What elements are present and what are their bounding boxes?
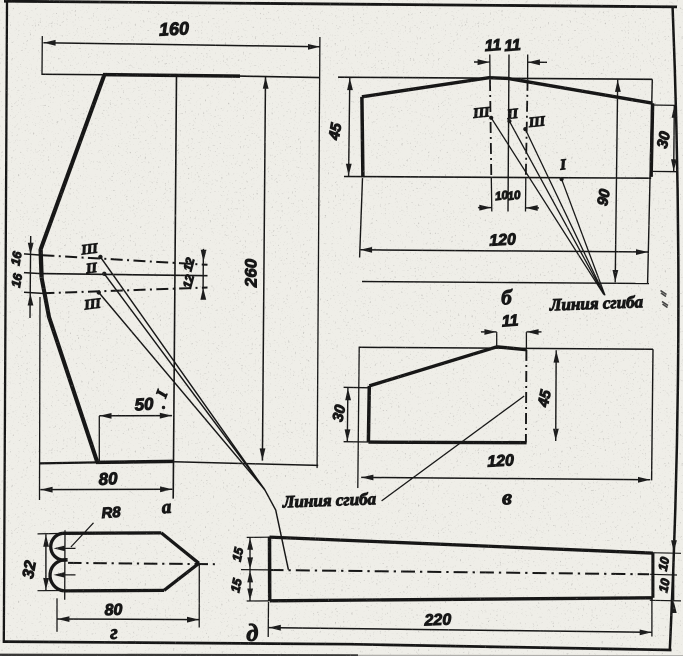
dimension 11 part v line right bbox=[526, 331, 541, 333]
dimension 260 line bbox=[262, 77, 265, 461]
part b fold line III right extension top bbox=[527, 55, 529, 80]
part g radius arrow upper bbox=[54, 546, 66, 552]
border frame left bbox=[4, 2, 7, 643]
dimension 10 right tick mid bbox=[650, 573, 677, 576]
part g center dash-dot line bbox=[68, 563, 215, 564]
part a fold point III lower bbox=[97, 290, 101, 294]
fold tick upper left bbox=[24, 254, 43, 255]
dimension 90 arrow down bbox=[613, 270, 619, 282]
part b fan line 3 bbox=[525, 129, 604, 295]
part a fold line III upper dash-dot bbox=[42, 255, 207, 265]
page bottom edge faint bbox=[358, 654, 683, 656]
dimension 12 arrow down bbox=[201, 250, 207, 262]
dimension 45 part b line bbox=[349, 78, 350, 176]
fold tick lower left bbox=[24, 292, 43, 293]
dimension 32 arrow up bbox=[43, 535, 49, 547]
dimension 50 arrow right bbox=[160, 413, 172, 419]
dimension 11 part v arrow left bbox=[526, 329, 538, 335]
dimension 11 part v line left bbox=[481, 331, 497, 333]
part a fold point II bbox=[102, 272, 106, 276]
border frame right bbox=[670, 7, 679, 649]
dimension 220 extension left bbox=[267, 602, 269, 638]
part v outline bottom edge bbox=[368, 440, 526, 444]
dimension 120 part b arrow right bbox=[636, 249, 648, 255]
dimension 10 right arrow up bbox=[671, 601, 677, 613]
dimension 15 arrow up mid bbox=[247, 570, 253, 582]
part b fold line II vertical bbox=[508, 55, 509, 212]
part d center tick left bbox=[241, 569, 269, 571]
dimension 30 part b tick bottom bbox=[651, 170, 677, 172]
dimension 15 15 line bbox=[249, 538, 251, 601]
dimension 32 tick bottom bbox=[38, 590, 64, 592]
part b fold line III left extension top bbox=[489, 55, 491, 81]
dimension 30 part v arrow up bbox=[345, 388, 351, 400]
part b top reference line bbox=[338, 77, 652, 79]
dimension 80 arrow left bbox=[40, 487, 52, 493]
part a fold line II solid bbox=[41, 274, 208, 276]
dimension 90 line bbox=[615, 80, 618, 283]
dimension 30 part b tick top bbox=[652, 104, 677, 106]
part v peak extension bbox=[496, 332, 498, 347]
part a bottom edge thick bbox=[96, 461, 174, 462]
dimension 160 arrow right bbox=[308, 44, 320, 50]
part v top reference line bbox=[359, 347, 653, 349]
dimension 90 arrow up bbox=[615, 80, 621, 92]
dimension 45 part v line bbox=[555, 350, 558, 441]
dimension 10 10 line left bbox=[478, 207, 492, 209]
dimension 16 16 line bbox=[29, 236, 32, 318]
dimension 10 arrow right bbox=[479, 205, 491, 211]
part a leader fan line 2 bbox=[104, 274, 264, 490]
part g radius line lower bbox=[56, 574, 76, 576]
part v left extension line bbox=[358, 347, 359, 488]
part g scallop arc lower bbox=[50, 560, 67, 591]
part d outline bottom edge bbox=[270, 598, 653, 601]
dimension 15 arrow down mid bbox=[247, 557, 253, 569]
dimension 220 arrow right bbox=[640, 630, 652, 636]
dimension 30 part v tick top bbox=[344, 386, 370, 389]
dimension 80 line bbox=[40, 488, 172, 490]
part d outline top edge bbox=[270, 537, 653, 553]
leader from fold label to part v bbox=[382, 396, 525, 501]
dimension 10 10 line right bbox=[526, 207, 540, 209]
dimension 50 extension bbox=[98, 416, 100, 462]
dimension 30 part v tick bottom bbox=[344, 441, 369, 443]
dimension 160 arrow left bbox=[43, 40, 55, 46]
part b right reference line bbox=[648, 79, 653, 283]
part b bottom reference line bbox=[344, 177, 651, 179]
part b fold line III left extension bottom bbox=[490, 178, 493, 212]
part v fold extension above bbox=[525, 332, 527, 350]
dimension 120 part v arrow left bbox=[361, 475, 373, 481]
part b fan line 1 bbox=[491, 118, 603, 294]
dimension 220 line bbox=[269, 628, 652, 633]
dimension 15 arrow down bottom bbox=[247, 589, 253, 601]
dimension 12 arrow up bbox=[200, 288, 206, 300]
dimension 11 11 line right bbox=[528, 61, 547, 63]
part b outline right edge bbox=[651, 103, 653, 177]
dimension 32 arrow down bbox=[43, 578, 49, 590]
part g scallop arc upper bbox=[51, 533, 68, 560]
dimension 160 right extension bbox=[317, 37, 320, 468]
part a leader fan line 3 bbox=[99, 293, 265, 490]
dimension 16 arrow down bbox=[28, 243, 34, 255]
dimension 120 part b line bbox=[360, 250, 648, 252]
border frame top bbox=[4, 1, 677, 7]
dimension 80 part g arrow left bbox=[57, 616, 69, 622]
dimension 80 part g line bbox=[57, 618, 199, 621]
part v right reference line bbox=[652, 349, 653, 480]
dimension 30 part b arrow up bbox=[672, 106, 678, 118]
part a top edge thin lead bbox=[42, 73, 104, 76]
part v outline top edge bbox=[369, 347, 526, 386]
dimension 160 line bbox=[43, 43, 320, 47]
dimension 10 right tick top bbox=[650, 552, 681, 555]
dimension 50 arrow left bbox=[99, 413, 111, 419]
margin mark 2 bbox=[662, 302, 668, 308]
part d center dash-dot line bbox=[270, 570, 650, 574]
part a bottom edge thin right bbox=[174, 462, 318, 466]
part b fold line III left dash-dot bbox=[490, 80, 491, 178]
part b fan line 2 bbox=[509, 121, 604, 294]
dimension 120 part v arrow right bbox=[638, 477, 650, 483]
dimension 11 11 line left bbox=[474, 61, 490, 63]
part d outline right edge bbox=[651, 553, 654, 598]
dimension 10 right arrow down bbox=[671, 540, 677, 552]
part g radius arrow lower bbox=[54, 572, 66, 578]
part v outline left edge bbox=[367, 386, 371, 442]
part b fold line III right dash-dot bbox=[526, 80, 528, 178]
part v fold dash-dot line bbox=[525, 350, 528, 443]
dimension 15 tick top bbox=[247, 536, 268, 538]
part g centers vertical line bbox=[64, 530, 66, 600]
dimension 32 tick top bbox=[38, 532, 64, 535]
fold tick middle left bbox=[24, 273, 41, 274]
dimension 16 arrow up bbox=[28, 293, 34, 305]
dimension 45 part v arrow down bbox=[553, 429, 559, 441]
part a fold line III lower dash-dot bbox=[42, 288, 207, 294]
dimension 220 arrow left bbox=[269, 625, 281, 631]
dimension 10 10 right line bbox=[673, 539, 675, 601]
part d outline left edge bbox=[268, 537, 272, 602]
part a outline lower diagonal bbox=[42, 278, 97, 461]
part a outline apex segment bbox=[41, 249, 42, 278]
dimension 11 arrow left bbox=[528, 59, 540, 65]
dimension 30 part v arrow down bbox=[345, 429, 351, 441]
part b fold point III left bbox=[489, 116, 493, 120]
part b fold line III right extension bottom bbox=[525, 178, 527, 212]
leader R8 bbox=[71, 523, 94, 547]
part g outline bottom edge bbox=[64, 589, 164, 593]
part a outline left diagonal bbox=[41, 74, 105, 249]
dimension 12 12 line bbox=[202, 249, 204, 299]
dimension 30 part v line bbox=[346, 388, 349, 442]
dimension 45 part v arrow up bbox=[554, 350, 560, 362]
part a fold point III upper bbox=[98, 255, 102, 259]
dimension 30 part b arrow down bbox=[671, 159, 677, 171]
dimension 11 arrow right bbox=[478, 59, 490, 65]
dimension 80 part g extension left bbox=[56, 598, 58, 632]
part a top edge thin right bbox=[239, 76, 320, 78]
part b outline top edge bbox=[362, 78, 653, 104]
dimension 260 arrow down bbox=[260, 448, 266, 460]
margin mark 1 bbox=[661, 291, 667, 297]
part b outline left edge bbox=[362, 97, 363, 178]
dimension 120 part v line bbox=[361, 477, 650, 479]
dimension 11 part v arrow right bbox=[484, 329, 496, 335]
part g outline upper diagonal bbox=[161, 533, 199, 563]
part g outline lower diagonal bbox=[164, 563, 199, 590]
dimension 120 part b arrow left bbox=[360, 247, 372, 253]
part b bottom extension line bbox=[362, 282, 649, 284]
dimension 50 line bbox=[99, 415, 172, 417]
page bottom edge shadow bbox=[0, 654, 358, 656]
part b fold point I bbox=[560, 177, 564, 181]
dimension 30 part b line bbox=[673, 105, 676, 171]
part a bottom edge left bbox=[39, 462, 98, 463]
dimension 45 part b arrow up bbox=[347, 78, 353, 90]
part g outline top edge bbox=[63, 531, 162, 535]
part a leader fan line 1 bbox=[100, 257, 264, 490]
dimension 15 arrow up top bbox=[247, 538, 253, 550]
part a top edge thick bbox=[103, 75, 240, 77]
part b fold point III right bbox=[523, 127, 527, 131]
dimension 80 part g extension right bbox=[198, 564, 200, 627]
dimension 80 arrow right bbox=[160, 486, 172, 492]
dimension 220 extension right bbox=[651, 598, 653, 636]
border frame bottom bbox=[4, 642, 672, 650]
dimension 32 line bbox=[45, 534, 47, 590]
part g radius line upper bbox=[56, 547, 76, 549]
part b fold point II bbox=[507, 119, 511, 123]
dimension 80 extension left bbox=[39, 297, 42, 500]
dimension 45 part b arrow down bbox=[346, 164, 352, 176]
point I part a bbox=[162, 406, 165, 409]
dimension 160 left extension bbox=[41, 36, 43, 75]
part b fan line 4 bbox=[562, 179, 605, 295]
dimension 10 arrow left bbox=[526, 205, 538, 211]
dimension 15 tick bottom bbox=[247, 600, 268, 602]
dimension 80 part g arrow right bbox=[187, 617, 199, 623]
leader to part d fold line bbox=[265, 490, 289, 570]
dimension 10 right tick bottom bbox=[650, 599, 681, 602]
part b left extension down bbox=[360, 178, 363, 258]
dimension 260 arrow up bbox=[263, 77, 269, 89]
part a right edge line bbox=[173, 75, 176, 499]
